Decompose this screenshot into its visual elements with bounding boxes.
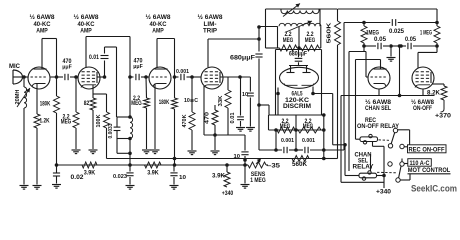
- svg-text:560K: 560K: [292, 162, 308, 168]
- svg-text:MOT CONTROL: MOT CONTROL: [408, 168, 451, 174]
- svg-text:MEG: MEG: [283, 38, 294, 44]
- svg-text:40-KC: 40-KC: [78, 22, 96, 28]
- svg-text:TRIP: TRIP: [203, 29, 217, 35]
- svg-text:+340: +340: [376, 190, 392, 196]
- svg-text:3.9K: 3.9K: [212, 174, 226, 180]
- svg-text:680μμF: 680μμF: [289, 52, 307, 58]
- svg-text:180K: 180K: [40, 102, 51, 108]
- svg-text:82: 82: [84, 101, 90, 107]
- svg-text:6AL5: 6AL5: [292, 92, 303, 98]
- svg-text:+370: +370: [435, 114, 452, 120]
- svg-text:DISCRIM: DISCRIM: [283, 104, 311, 110]
- svg-text:½ 6AW8: ½ 6AW8: [30, 14, 56, 21]
- svg-text:ON-OFF RELAY: ON-OFF RELAY: [357, 124, 399, 130]
- svg-text:AMP: AMP: [152, 29, 164, 35]
- svg-text:1MEG: 1MEG: [366, 31, 379, 37]
- svg-text:0.0033: 0.0033: [108, 123, 114, 138]
- svg-text:REC ON-OFF: REC ON-OFF: [409, 148, 445, 154]
- svg-text:MEG: MEG: [131, 101, 142, 107]
- svg-text:½ 6AW8: ½ 6AW8: [74, 14, 100, 21]
- svg-text:½ 6AW8: ½ 6AW8: [198, 14, 224, 21]
- svg-text:MEG: MEG: [303, 124, 314, 130]
- svg-text:3.9K: 3.9K: [147, 171, 159, 177]
- svg-text:0.023: 0.023: [113, 174, 127, 180]
- svg-text:MEG: MEG: [305, 38, 316, 44]
- svg-text:110 A-C: 110 A-C: [410, 161, 431, 167]
- svg-text:100K: 100K: [96, 114, 102, 127]
- svg-text:10≌C: 10≌C: [184, 98, 198, 104]
- svg-text:680μμF: 680μμF: [230, 56, 255, 62]
- svg-text:180K: 180K: [159, 100, 170, 106]
- svg-text:MIC: MIC: [9, 64, 21, 70]
- svg-text:1.2K: 1.2K: [40, 119, 51, 125]
- svg-text:1 MEG: 1 MEG: [250, 178, 266, 184]
- svg-text:470K: 470K: [182, 114, 188, 127]
- svg-text:0.02: 0.02: [71, 175, 85, 181]
- svg-text:0.01: 0.01: [230, 112, 236, 123]
- svg-text:0.05: 0.05: [374, 37, 387, 43]
- svg-text:0.001: 0.001: [176, 69, 189, 75]
- svg-text:0.001: 0.001: [281, 138, 294, 144]
- svg-text:0.001: 0.001: [302, 138, 315, 144]
- svg-text:10: 10: [179, 175, 186, 181]
- svg-text:0.025: 0.025: [389, 28, 405, 35]
- svg-text:33K: 33K: [218, 95, 224, 106]
- svg-text:10: 10: [242, 92, 248, 98]
- svg-text:MEG: MEG: [61, 120, 72, 126]
- svg-text:470: 470: [205, 112, 211, 124]
- svg-text:10: 10: [234, 154, 241, 160]
- svg-text:μμF: μμF: [133, 64, 143, 70]
- svg-text:LIM-: LIM-: [204, 22, 217, 28]
- svg-text:½ 6AW8: ½ 6AW8: [146, 14, 172, 21]
- svg-text:AMP: AMP: [36, 29, 48, 35]
- svg-text:½ 6AW8: ½ 6AW8: [411, 99, 435, 106]
- svg-text:MEG: MEG: [280, 124, 291, 130]
- svg-text:½ 6AW8: ½ 6AW8: [365, 99, 392, 106]
- svg-text:560K: 560K: [327, 22, 333, 43]
- svg-text:AMP: AMP: [80, 29, 92, 35]
- svg-text:40-KC: 40-KC: [34, 22, 52, 28]
- svg-text:1 MEG: 1 MEG: [420, 31, 432, 37]
- svg-text:SeekIC.com: SeekIC.com: [411, 184, 457, 195]
- svg-text:40-KC: 40-KC: [150, 22, 168, 28]
- svg-text:μμF: μμF: [62, 64, 72, 70]
- svg-text:0.01: 0.01: [89, 55, 100, 61]
- svg-text:+340: +340: [222, 191, 234, 196]
- svg-text:CHAN SEL: CHAN SEL: [365, 106, 391, 112]
- svg-text:ON-OFF: ON-OFF: [413, 106, 432, 112]
- svg-text:–35: –35: [267, 164, 281, 170]
- svg-text:0.05: 0.05: [405, 37, 417, 43]
- svg-text:3.9K: 3.9K: [84, 171, 96, 177]
